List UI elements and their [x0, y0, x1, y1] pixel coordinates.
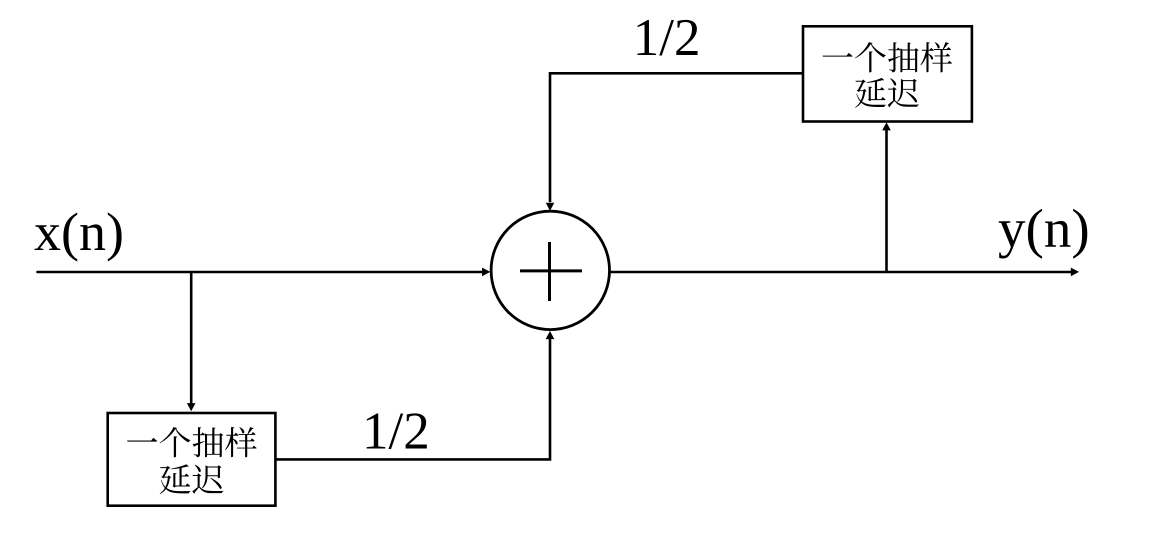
arrowhead output: [1071, 268, 1079, 277]
svg-text:y(n): y(n): [998, 198, 1090, 259]
arrowhead into adder bottom: [546, 331, 555, 339]
svg-text:1/2: 1/2: [362, 402, 430, 460]
delay box D1 text line 1: 一个抽样: [127, 427, 256, 457]
svg-text:1/2: 1/2: [633, 9, 701, 67]
delay box D1 (bottom): [108, 413, 276, 506]
delay box D2 (top): [803, 26, 972, 121]
delay box D2 text line 1: 一个抽样: [823, 42, 952, 72]
arrowhead into bottom delay box: [187, 403, 196, 411]
wire branch down from input node: [190, 272, 193, 404]
wire from D2 output to adder top: [550, 73, 803, 202]
wire branch up from output node to delay box D2: [885, 130, 888, 272]
op-amp adder circle U1: [491, 211, 609, 329]
delay box D2 text line 2: 延迟: [855, 78, 919, 108]
wire from D1 output to adder bottom: [276, 339, 550, 460]
wire input line from x(n) to adder: [36, 271, 482, 274]
wire output line from adder to y(n): [611, 271, 1072, 274]
arrowhead into adder top: [546, 203, 555, 211]
arrowhead into adder left: [482, 268, 490, 277]
svg-text:x(n): x(n): [34, 202, 124, 262]
arrowhead into top delay box bottom: [882, 122, 891, 130]
delay box D1 text line 2: 延迟: [160, 464, 224, 494]
plus sign inside adder: [520, 269, 582, 272]
